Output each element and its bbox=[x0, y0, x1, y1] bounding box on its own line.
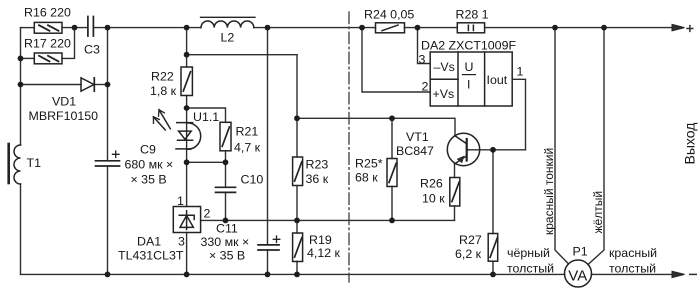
svg-text:4,12 к: 4,12 к bbox=[307, 246, 341, 260]
wire C9 vertical bottom bbox=[107, 166, 109, 274]
wire C9 vertical top bbox=[107, 28, 109, 160]
svg-text:10 к: 10 к bbox=[422, 192, 445, 206]
wire C11 bottom stub bbox=[267, 250, 269, 275]
wire top rail R24 to R28 bbox=[405, 27, 458, 29]
label output plus bbox=[686, 25, 693, 32]
wire R23 to node y220 bbox=[296, 186, 298, 233]
node U1.1 cathode bbox=[184, 159, 190, 165]
node DA1 pin3 bottom rail bbox=[184, 272, 190, 278]
wire R23 column upper bbox=[296, 55, 298, 157]
svg-text:DA2 ZXCT1009F: DA2 ZXCT1009F bbox=[421, 39, 516, 53]
divider dash-dot line bbox=[348, 12, 350, 282]
wire top rail C3 to L2 bbox=[94, 27, 201, 29]
opto-LED U1.1 bbox=[153, 110, 200, 150]
label output minus bbox=[689, 273, 697, 275]
svg-text:330 мк ×: 330 мк × bbox=[201, 235, 250, 249]
svg-text:R17 220: R17 220 bbox=[24, 37, 71, 51]
wire R25 top stub bbox=[391, 118, 393, 158]
node R25 collector rail bbox=[389, 115, 395, 121]
node meter yellow lead top rail bbox=[601, 25, 607, 31]
wire VD1 cathode segment bbox=[94, 84, 107, 86]
wire R25 bottom stub bbox=[391, 186, 393, 220]
wire top rail left segment bbox=[21, 27, 35, 29]
wire DA2 pin2 to top rail bbox=[362, 28, 430, 92]
capacitor C3 bbox=[88, 17, 94, 37]
svg-text:6,2 к: 6,2 к bbox=[455, 247, 482, 261]
wire top rail L2 to R24 bbox=[254, 27, 376, 29]
resistor R23 bbox=[293, 157, 303, 186]
svg-text:DA1: DA1 bbox=[137, 235, 161, 249]
svg-text:L2: L2 bbox=[221, 31, 235, 45]
capacitor C11 electrolytic bbox=[258, 236, 280, 250]
node dots bbox=[18, 25, 607, 278]
capacitor C10 bbox=[216, 187, 236, 192]
resistor R25 bbox=[387, 159, 397, 187]
resistor R26 bbox=[450, 178, 460, 207]
resistor R28 bbox=[457, 23, 484, 33]
wire R26 bottom stub bbox=[454, 206, 456, 220]
svg-text:Выход: Выход bbox=[682, 123, 698, 165]
transformer winding T1 bbox=[9, 144, 21, 184]
wire R19 bottom stub bbox=[296, 261, 298, 274]
wire C11 column upper bbox=[267, 28, 269, 245]
node DA2 pin2 top rail bbox=[359, 25, 365, 31]
wire bottom rail meter to output bbox=[591, 273, 674, 275]
svg-text:красный: красный bbox=[609, 246, 657, 260]
output arrow plus bbox=[672, 24, 685, 30]
node R27 bottom rail bbox=[490, 272, 496, 278]
wire left vertical upper bbox=[20, 28, 22, 145]
node R17 top rail bbox=[72, 25, 78, 31]
node R19 bottom rail bbox=[294, 272, 300, 278]
wire R22 top stub from top rail bbox=[186, 28, 188, 67]
svg-text:1: 1 bbox=[517, 65, 524, 79]
wire VT1 emitter down to R26 bbox=[454, 164, 456, 178]
wire C10 bottom stub bbox=[225, 193, 227, 221]
svg-text:× 35 В: × 35 В bbox=[209, 249, 245, 263]
node R17 left bbox=[18, 56, 24, 62]
svg-text:R27: R27 bbox=[459, 233, 482, 247]
svg-text:BC847: BC847 bbox=[396, 144, 434, 158]
svg-text:VD1: VD1 bbox=[52, 95, 76, 109]
wire collector net y118 bbox=[297, 118, 455, 136]
svg-text:U1.1: U1.1 bbox=[193, 110, 219, 124]
node C10 bottom bbox=[223, 218, 229, 224]
svg-text:I: I bbox=[467, 78, 470, 92]
resistor R21 bbox=[220, 122, 231, 151]
node DA2 pin3 top rail bbox=[415, 25, 421, 31]
svg-text:R28 1: R28 1 bbox=[456, 7, 489, 21]
wire VD1 anode segment bbox=[21, 84, 82, 86]
svg-text:R26: R26 bbox=[420, 177, 443, 191]
resistor R17 bbox=[34, 53, 62, 64]
wire node at y55 to R23 column bbox=[187, 54, 297, 56]
svg-text:Iout: Iout bbox=[487, 73, 508, 87]
shunt regulator DA1 TL431 bbox=[173, 207, 200, 233]
diode VD1 bbox=[81, 78, 94, 91]
svg-text:чёрный: чёрный bbox=[507, 246, 550, 260]
svg-text:68 к: 68 к bbox=[355, 171, 378, 185]
node C11 bottom rail bbox=[265, 272, 271, 278]
wire voltmeter yellow lead bbox=[588, 28, 604, 265]
node VD1 cathode C9 bbox=[105, 82, 111, 88]
svg-text:толстый: толстый bbox=[507, 262, 554, 276]
svg-text:2: 2 bbox=[422, 80, 429, 94]
svg-text:R16 220: R16 220 bbox=[24, 6, 71, 20]
svg-text:C11: C11 bbox=[216, 222, 238, 236]
svg-text:1,8 к: 1,8 к bbox=[150, 84, 177, 98]
inductor L2 bbox=[201, 17, 256, 27]
resistor R22 bbox=[181, 67, 192, 96]
node VT1 base R27 bbox=[490, 147, 496, 153]
node R23 R25 collector rail left bbox=[294, 115, 300, 121]
svg-text:R19: R19 bbox=[309, 233, 332, 247]
svg-text:R22: R22 bbox=[151, 70, 174, 84]
svg-text:+Vs: +Vs bbox=[433, 87, 455, 101]
svg-text:VT1: VT1 bbox=[406, 130, 429, 144]
svg-text:толстый: толстый bbox=[609, 262, 656, 276]
resistor R19 bbox=[293, 233, 303, 262]
resistor R27 bbox=[488, 234, 498, 262]
svg-text:R21: R21 bbox=[236, 125, 259, 139]
svg-text:C10: C10 bbox=[241, 173, 264, 187]
node VD1 anode bbox=[18, 82, 24, 88]
wire R22 bottom to U1.1 bbox=[186, 96, 188, 207]
svg-text:P1: P1 bbox=[573, 245, 588, 259]
wire R27 top stub bbox=[492, 150, 494, 234]
svg-text:MBRF10150: MBRF10150 bbox=[29, 109, 99, 123]
wire R27 bottom stub bbox=[492, 261, 494, 274]
wire DA2 pin3 to top rail bbox=[418, 28, 431, 64]
wire R21 bottom through C10 to pin2 net bbox=[225, 151, 227, 187]
svg-text:C9: C9 bbox=[140, 143, 156, 157]
svg-text:TL431CL3T: TL431CL3T bbox=[118, 249, 184, 263]
svg-text:4,7 к: 4,7 к bbox=[234, 141, 261, 155]
node R23 R19 bbox=[294, 218, 300, 224]
wire R17 left stub bbox=[21, 57, 35, 59]
svg-text:U: U bbox=[465, 60, 474, 74]
node R22 bottom branch bbox=[184, 52, 190, 58]
wire DA2 Iout pin1 down bbox=[512, 79, 525, 150]
svg-text:36 к: 36 к bbox=[306, 172, 329, 186]
resistor R24 shunt bbox=[376, 23, 405, 33]
svg-text:VA: VA bbox=[568, 267, 587, 284]
svg-text:красный тонкий: красный тонкий bbox=[542, 148, 556, 235]
resistor R16 bbox=[34, 22, 62, 33]
wire U1.1 top to R21 bbox=[187, 108, 226, 122]
svg-text:1: 1 bbox=[177, 194, 184, 208]
wire DA1 pin3 to bottom rail bbox=[186, 233, 188, 275]
svg-text:680 мк ×: 680 мк × bbox=[125, 158, 174, 172]
svg-text:× 35 В: × 35 В bbox=[131, 173, 167, 187]
wire top rail R16 to C3 bbox=[62, 27, 87, 29]
capacitor C9 electrolytic bbox=[96, 151, 120, 166]
svg-text:C3: C3 bbox=[84, 42, 100, 56]
svg-text:R24 0,05: R24 0,05 bbox=[364, 7, 414, 21]
node C11 top rail bbox=[265, 25, 271, 31]
node U1.1 anode bbox=[184, 105, 190, 111]
node C10 top bbox=[223, 159, 229, 165]
transistor VT1 BC847 bbox=[447, 133, 479, 165]
wire R17 right stub up to top rail bbox=[62, 28, 75, 59]
wire DA1 pin2 horizontal net y220 bbox=[201, 219, 455, 221]
svg-text:R25*: R25* bbox=[355, 157, 383, 171]
meter P1 bbox=[565, 260, 592, 287]
node meter red lead top rail bbox=[552, 25, 558, 31]
node R22 top rail bbox=[184, 25, 190, 31]
svg-text:жёлтый: жёлтый bbox=[591, 191, 605, 234]
node R25 bottom bbox=[389, 218, 395, 224]
wire VT1 base to Iout node bbox=[468, 149, 526, 151]
svg-text:R23: R23 bbox=[306, 158, 329, 172]
svg-text:3: 3 bbox=[419, 53, 426, 67]
wire voltmeter red thin lead bbox=[555, 28, 569, 264]
current monitor DA2 ZXCT1009F bbox=[430, 52, 512, 106]
svg-text:T1: T1 bbox=[27, 156, 42, 170]
wire left vertical lower bbox=[20, 184, 22, 274]
wire top rail R28 to output bbox=[485, 27, 673, 29]
wire bottom rail left of meter bbox=[21, 273, 565, 275]
svg-text:3: 3 bbox=[178, 235, 185, 249]
node C9 top rail bbox=[105, 25, 111, 31]
svg-text:–Vs: –Vs bbox=[434, 60, 455, 74]
wire U1.1 cathode to C10 column bbox=[187, 161, 226, 163]
node C9 bottom rail bbox=[105, 272, 111, 278]
output arrow minus bbox=[672, 271, 685, 277]
svg-text:2: 2 bbox=[204, 207, 211, 221]
